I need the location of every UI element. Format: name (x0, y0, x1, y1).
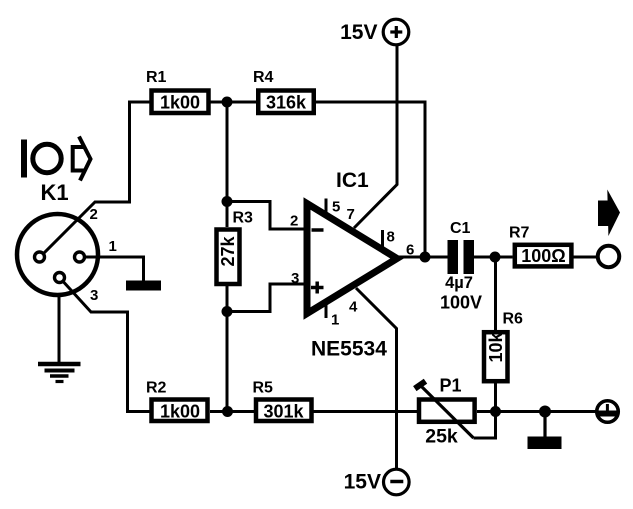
resistor R1 (152, 91, 209, 114)
wire IC1 pin 7 to +15V (354, 46, 397, 228)
-15V supply terminal (384, 469, 410, 495)
chassis ground at K1 pin 1 (126, 281, 161, 291)
resistor R4 (258, 91, 314, 114)
junction R1-R4-R3 (222, 97, 233, 108)
svg-text:1: 1 (109, 238, 117, 255)
svg-text:100Ω: 100Ω (521, 246, 565, 266)
wire K1 shell to earth ground (58, 295, 61, 362)
connector K1 (17, 214, 98, 295)
resistor R2 (152, 400, 208, 422)
wire R7 to output terminal (574, 256, 598, 259)
junction C1-R7-R6 (490, 252, 501, 263)
resistor R6 (484, 332, 508, 382)
wire R2 to R5 (210, 410, 254, 413)
output terminal (598, 246, 620, 268)
wire R5 to P1 (314, 410, 418, 413)
junction R3 bottom (222, 306, 233, 317)
wire R1 to R4 (210, 101, 256, 104)
wire P1 wiper to bottom node (474, 412, 496, 439)
junction R6-P1 wiper (490, 406, 501, 417)
resistor R3 (217, 230, 240, 285)
microphone symbol (21, 137, 91, 181)
svg-text:C1: C1 (450, 220, 471, 237)
svg-text:2: 2 (290, 213, 298, 230)
svg-text:3: 3 (291, 270, 299, 287)
capacitor C1 (448, 240, 475, 274)
svg-text:4: 4 (349, 299, 358, 316)
svg-text:316k: 316k (266, 93, 307, 113)
K1 pin 1 pad (75, 252, 85, 262)
junction output-R4 feedback (420, 252, 431, 263)
+15V supply terminal (383, 19, 409, 45)
svg-text:5: 5 (332, 199, 340, 216)
junction node R3 top (222, 196, 233, 207)
potentiometer P1 (415, 381, 475, 438)
svg-text:1: 1 (331, 312, 339, 329)
wire C1 to R7 (474, 256, 513, 259)
svg-text:3: 3 (90, 287, 98, 304)
svg-text:25k: 25k (425, 426, 458, 448)
wire R3 bottom to R2-R5 node (226, 286, 229, 412)
svg-text:NE5534: NE5534 (311, 338, 387, 361)
resistor R7 (515, 245, 572, 267)
wire junction to R6 (494, 257, 497, 330)
IC1 pin 8 stub (381, 230, 384, 247)
svg-text:R5: R5 (253, 380, 274, 397)
earth ground under K1 (38, 364, 81, 382)
chassis ground at output (528, 412, 562, 450)
op-amp IC1 (307, 204, 397, 314)
svg-text:IC1: IC1 (336, 169, 369, 192)
svg-text:10k: 10k (486, 332, 506, 363)
K1 pin 2 pad (35, 252, 45, 262)
svg-text:15V: 15V (340, 21, 377, 44)
output direction arrow (598, 190, 620, 237)
wire K1 pin 3 to R2 (60, 278, 151, 412)
svg-text:100V: 100V (440, 293, 482, 313)
wire node to IC1 pin 3 (227, 284, 307, 312)
junction R2-R5-R3 (222, 406, 233, 417)
wire IC1 output to C1 (398, 256, 448, 259)
wire IC1 pin 4 to -15V (356, 288, 397, 469)
svg-text:15V: 15V (344, 471, 381, 494)
svg-text:R1: R1 (146, 69, 167, 86)
svg-text:1k00: 1k00 (160, 402, 200, 422)
ground terminal (597, 401, 619, 423)
svg-text:301k: 301k (263, 402, 304, 422)
resistor R5 (256, 400, 312, 422)
junction ground node (539, 406, 551, 418)
K1 pin 3 pad (55, 273, 65, 283)
svg-text:R4: R4 (253, 69, 274, 86)
wire R6 to bottom node (494, 383, 497, 412)
svg-text:27k: 27k (218, 236, 238, 267)
IC1 pin 1 stub (325, 305, 328, 318)
svg-text:R6: R6 (503, 311, 524, 328)
wire R4 to output node (feedback) (316, 102, 425, 257)
IC1 pin 5 stub (325, 199, 328, 213)
svg-text:2: 2 (90, 206, 98, 223)
svg-text:R7: R7 (509, 225, 530, 242)
svg-text:K1: K1 (40, 180, 68, 205)
wire K1 pin 2 to R1 (40, 102, 150, 257)
svg-text:1k00: 1k00 (160, 93, 200, 113)
svg-text:R3: R3 (233, 210, 254, 227)
wire K1 pin 1 to chassis ground (86, 257, 144, 281)
svg-text:8: 8 (387, 229, 395, 246)
svg-text:P1: P1 (440, 376, 462, 396)
svg-text:7: 7 (347, 206, 355, 223)
svg-text:4µ7: 4µ7 (445, 274, 473, 292)
svg-text:R2: R2 (146, 380, 167, 397)
wire P1 to ground terminal (477, 410, 596, 413)
wire junction down to R3 (226, 102, 229, 227)
wire node to IC1 pin 2 (227, 202, 307, 230)
